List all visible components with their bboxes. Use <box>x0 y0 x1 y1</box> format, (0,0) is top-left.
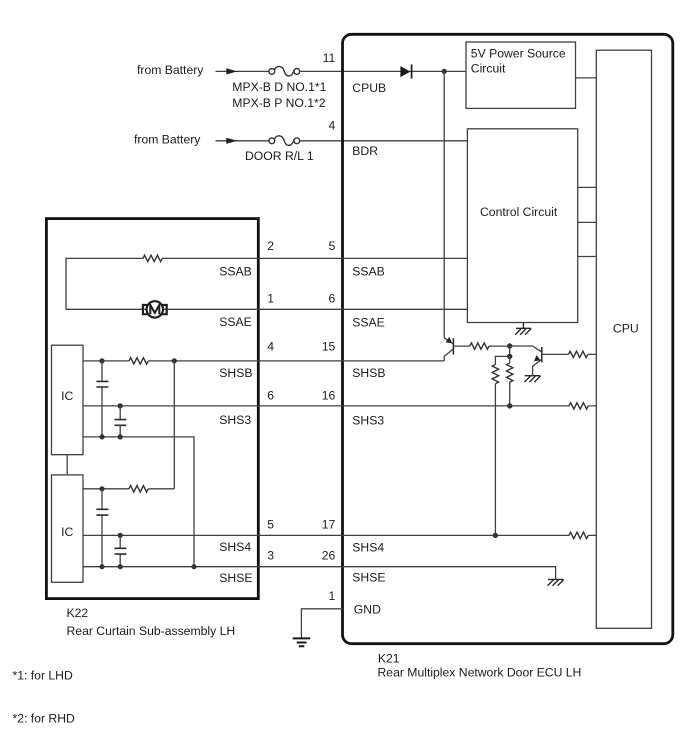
node SHSE a <box>99 564 104 569</box>
svg-text:SHSB: SHSB <box>352 366 385 380</box>
svg-text:*1: for LHD: *1: for LHD <box>13 669 73 683</box>
svg-text:MPX-B D NO.1*1: MPX-B D NO.1*1 <box>232 80 326 94</box>
svg-text:4: 4 <box>329 119 336 133</box>
svg-text:SHS4: SHS4 <box>352 540 384 554</box>
wire SHS4 <box>83 534 596 536</box>
arrow battery feed top <box>226 68 237 74</box>
svg-text:15: 15 <box>322 340 336 354</box>
wire SSAB <box>66 258 467 309</box>
transistor Q2 <box>510 346 542 376</box>
fuse DOOR R/L 1 <box>269 136 300 146</box>
svg-text:26: 26 <box>322 549 336 563</box>
wire pulldown right leg <box>509 356 511 363</box>
svg-text:CPU: CPU <box>613 322 639 336</box>
wire SHSB <box>83 360 444 362</box>
wire GND <box>301 609 342 638</box>
wire R4 to SHS3 <box>509 382 511 406</box>
svg-text:16: 16 <box>322 388 336 402</box>
Sub-assembly K22 box <box>46 219 258 599</box>
wire ground rail upper <box>83 437 194 567</box>
svg-text:6: 6 <box>267 388 274 402</box>
capacitor C4 <box>115 535 127 566</box>
capacitor C1 <box>96 361 108 437</box>
earth ground <box>293 638 311 646</box>
svg-text:SHSE: SHSE <box>352 571 385 585</box>
svg-text:Rear Curtain Sub-assembly LH: Rear Curtain Sub-assembly LH <box>67 624 236 638</box>
ECU K21 box <box>343 34 673 643</box>
svg-text:SSAB: SSAB <box>352 265 385 279</box>
wire from Battery to BDR <box>216 140 468 142</box>
svg-text:5: 5 <box>267 517 274 531</box>
svg-text:4: 4 <box>267 340 274 354</box>
node divider top <box>507 343 512 348</box>
arrow battery feed bottom <box>226 138 237 144</box>
svg-text:SHS3: SHS3 <box>352 413 384 427</box>
wire pullup left leg <box>495 356 509 364</box>
node rail a <box>99 434 104 439</box>
svg-text:Circuit: Circuit <box>471 61 506 75</box>
svg-text:SHS3: SHS3 <box>219 413 251 427</box>
node SHS4 at C4 <box>118 533 123 538</box>
node SHSE b <box>118 564 123 569</box>
svg-text:CPUB: CPUB <box>352 81 386 95</box>
svg-text:5: 5 <box>329 239 336 253</box>
capacitor C3 <box>96 489 108 567</box>
5V Power Source Circuit box U2 <box>466 42 576 108</box>
resistor on SHSB <box>129 358 148 364</box>
svg-text:GND: GND <box>354 603 381 617</box>
svg-text:2: 2 <box>267 239 274 253</box>
node SHS4 junction <box>493 533 498 538</box>
wire 5V to CPU <box>576 77 597 79</box>
node rail b <box>118 434 123 439</box>
svg-text:Control Circuit: Control Circuit <box>480 205 558 219</box>
svg-text:K22: K22 <box>67 606 89 620</box>
svg-text:SSAB: SSAB <box>219 265 252 279</box>
resistor R2 Q1 base <box>470 343 489 349</box>
wire SHSB feedback vertical <box>173 361 175 489</box>
svg-text:1: 1 <box>267 291 274 305</box>
svg-text:SSAE: SSAE <box>219 315 252 329</box>
svg-text:17: 17 <box>322 517 336 531</box>
wire SSAE <box>66 308 467 310</box>
node divider mid <box>507 354 512 359</box>
IC2 box <box>52 475 84 582</box>
wire Control Circuit to CPU 2 <box>578 221 597 223</box>
node SHSB a <box>99 358 104 363</box>
resistor on IC2 sense <box>129 486 148 492</box>
node SHSB b <box>172 358 177 363</box>
resistor R6 SHS3 <box>569 403 588 409</box>
svg-text:SHSB: SHSB <box>219 366 252 380</box>
fuse MPX-B NO.1 <box>269 66 300 76</box>
transistor Q1 <box>444 337 453 361</box>
wire +B vertical to Q1 <box>443 71 445 337</box>
svg-text:3: 3 <box>267 549 274 563</box>
ground below Control Circuit <box>515 323 531 335</box>
node SHSE c <box>191 564 196 569</box>
svg-text:MPX-B P NO.1*2: MPX-B P NO.1*2 <box>232 96 325 110</box>
resistor R5 base <box>569 351 588 357</box>
svg-text:K21: K21 <box>378 651 400 665</box>
wire Control Circuit to CPU 1 <box>578 186 597 188</box>
resistor R7 SHS4 <box>569 532 588 538</box>
wire SHS3 <box>83 405 596 407</box>
IC1 box <box>52 345 84 455</box>
svg-text:from Battery: from Battery <box>137 63 204 77</box>
wire Q2 base to CPU <box>542 353 597 355</box>
motor M1 <box>143 301 167 317</box>
ground SHSE <box>548 579 564 585</box>
svg-text:6: 6 <box>329 291 336 305</box>
svg-text:IC: IC <box>61 525 73 539</box>
wire R3 to SHS4 <box>494 384 496 536</box>
ground Q2 emitter <box>524 376 540 382</box>
wire Control Circuit to CPU 3 <box>578 256 597 258</box>
svg-text:BDR: BDR <box>352 144 378 158</box>
wire from Battery to CPUB <box>216 70 467 72</box>
node SHS3 junction <box>507 403 512 408</box>
svg-text:IC: IC <box>61 389 73 403</box>
svg-text:1: 1 <box>329 589 336 603</box>
CPU box U4 <box>596 50 651 628</box>
svg-text:DOOR R/L 1: DOOR R/L 1 <box>245 149 314 163</box>
Control Circuit box U3 <box>467 129 577 323</box>
wire SHSE <box>83 567 556 580</box>
wire IC1 to IC2 <box>66 455 68 475</box>
svg-text:SSAE: SSAE <box>352 316 385 330</box>
wire Q1 base <box>453 345 507 347</box>
diode D1 <box>400 64 411 78</box>
svg-text:Rear Multiplex Network Door EC: Rear Multiplex Network Door ECU LH <box>378 666 582 680</box>
node IC2 sense <box>99 486 104 491</box>
node CPUB junction <box>442 69 447 74</box>
node SHS3 at C2 <box>118 403 123 408</box>
resistor R4 right <box>507 363 513 382</box>
svg-text:11: 11 <box>323 51 336 65</box>
svg-text:*2: for RHD: *2: for RHD <box>13 711 76 725</box>
wire node link <box>509 346 511 356</box>
svg-text:from Battery: from Battery <box>134 133 201 147</box>
svg-text:SHSE: SHSE <box>219 571 252 585</box>
resistor on SSAB <box>143 255 162 261</box>
svg-text:5V Power Source: 5V Power Source <box>471 46 566 60</box>
capacitor C2 <box>115 406 127 437</box>
svg-text:SHS4: SHS4 <box>219 540 251 554</box>
wire IC2 sense <box>83 488 174 490</box>
resistor R3 left <box>492 365 498 384</box>
